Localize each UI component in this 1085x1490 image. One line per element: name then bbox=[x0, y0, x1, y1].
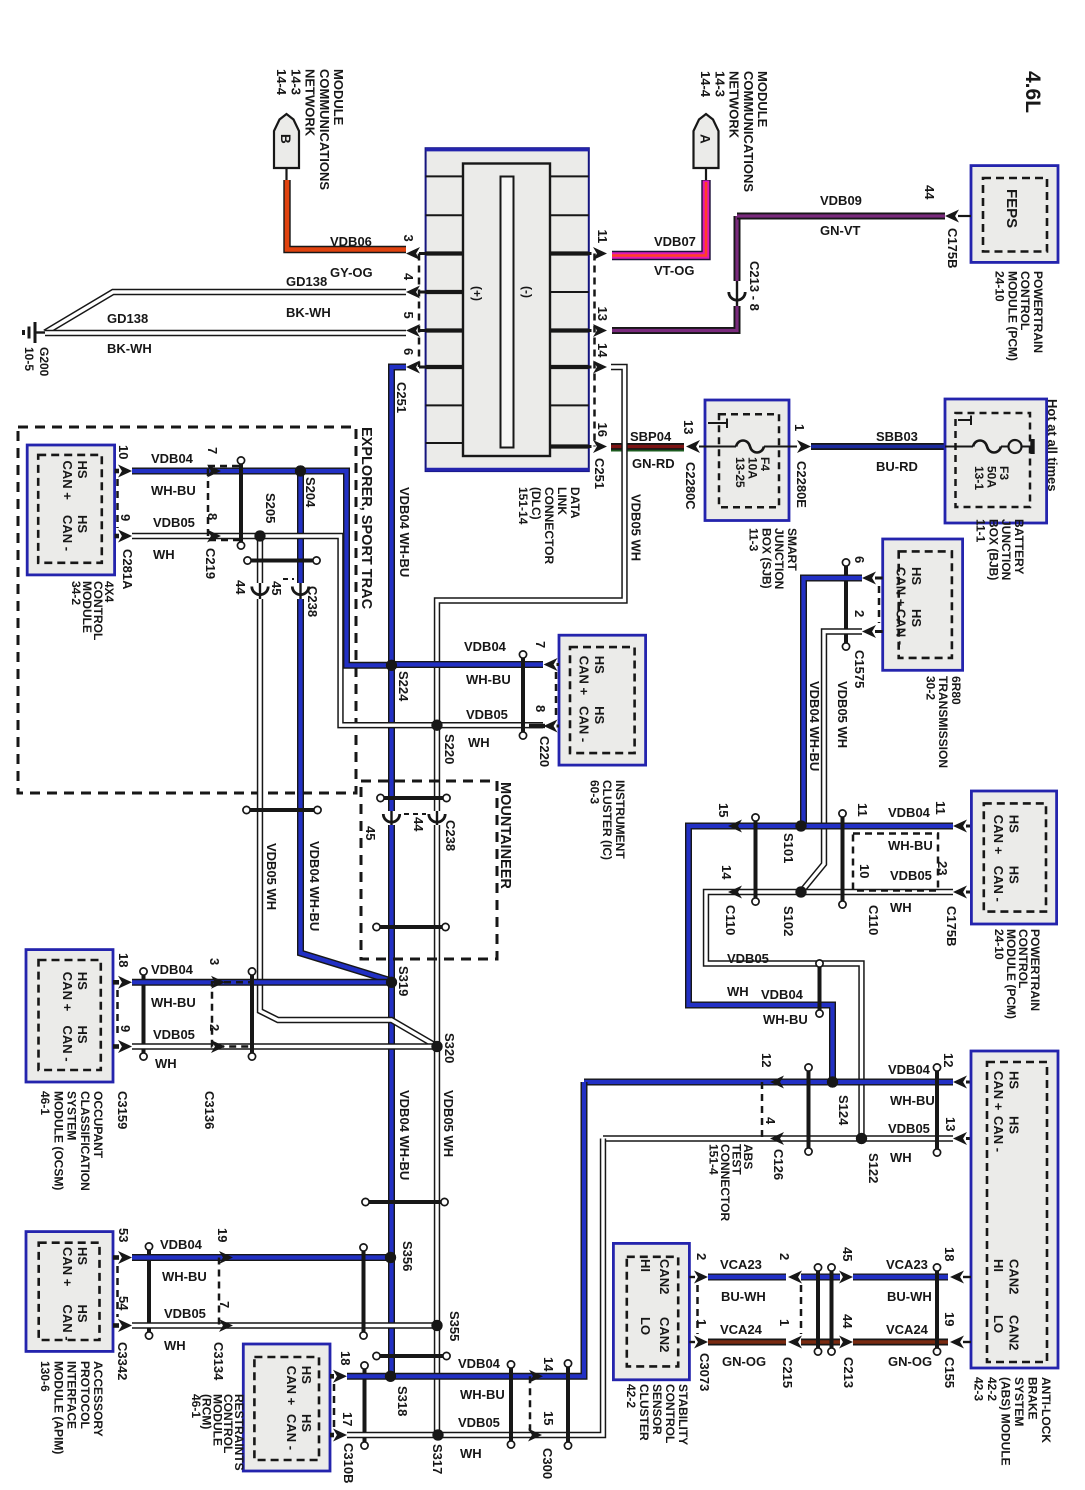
svg-text:17: 17 bbox=[340, 1412, 355, 1426]
connector C300 pins 14/15 bbox=[509, 1368, 513, 1441]
svg-text:VDB09: VDB09 bbox=[820, 193, 862, 208]
svg-text:44: 44 bbox=[411, 817, 426, 832]
wire branch S204 down (explorer bus) bbox=[297, 471, 304, 583]
svg-text:B: B bbox=[278, 134, 293, 144]
wire: GD138 BK-WH lower (DLC pin 5 to G200) bbox=[45, 330, 406, 336]
svg-text:EXPLORER, SPORT TRAC: EXPLORER, SPORT TRAC bbox=[358, 427, 374, 610]
splice S102 bbox=[795, 886, 806, 897]
svg-text:2: 2 bbox=[694, 1253, 709, 1260]
svg-text:SBP04: SBP04 bbox=[630, 429, 672, 444]
svg-text:14: 14 bbox=[719, 865, 734, 880]
PCM powertrain control module box bbox=[971, 791, 1056, 924]
wire VDB04 (RCM pin 18 to S318) bbox=[347, 1373, 391, 1380]
connector C110/C175B (pins 11/10 - 11/23) bbox=[841, 817, 845, 901]
svg-text:WH-BU: WH-BU bbox=[460, 1387, 505, 1402]
svg-text:VCA23: VCA23 bbox=[886, 1257, 928, 1272]
svg-text:BU-WH: BU-WH bbox=[887, 1289, 932, 1304]
svg-text:VDB04: VDB04 bbox=[761, 987, 804, 1002]
wire VDB04 (APIM pin 53 to S356) bbox=[132, 1254, 391, 1261]
svg-text:VDB04: VDB04 bbox=[888, 805, 931, 820]
svg-text:WH: WH bbox=[890, 1150, 912, 1165]
svg-text:WH: WH bbox=[164, 1338, 186, 1353]
wire VCA23 BU-WH (stability to C215) bbox=[708, 1274, 786, 1281]
svg-text:VDB04 WH-BU: VDB04 WH-BU bbox=[807, 681, 822, 771]
stability control sensor cluster box bbox=[613, 1243, 689, 1379]
svg-text:GN-OG: GN-OG bbox=[722, 1354, 766, 1369]
svg-text:MOUNTAINEER: MOUNTAINEER bbox=[497, 782, 513, 889]
svg-text:12: 12 bbox=[759, 1053, 774, 1067]
svg-text:WH-BU: WH-BU bbox=[890, 1093, 935, 1108]
DLC pin arrows and numbers bbox=[406, 247, 420, 260]
svg-text:S318: S318 bbox=[395, 1386, 410, 1416]
wire VCA24 GN-OG (C213 to ABS pin 19) bbox=[853, 1339, 948, 1346]
svg-text:VDB06: VDB06 bbox=[330, 234, 372, 249]
4X4 pin 10 / C281A bbox=[115, 469, 119, 474]
svg-text:VDB05: VDB05 bbox=[458, 1415, 500, 1430]
wire VDB05 WH (PCM pin 23 run) bbox=[706, 892, 953, 1139]
svg-text:C281A: C281A bbox=[120, 549, 135, 590]
svg-text:18: 18 bbox=[338, 1351, 353, 1365]
svg-text:S205: S205 bbox=[263, 493, 278, 523]
connector C213 pins 45/44 bbox=[839, 1271, 853, 1284]
wire VDB09 GN-VT (junction to FEPS pin 44) bbox=[734, 216, 741, 281]
SJB smart junction box bbox=[705, 400, 789, 521]
wire VDB07 VT-OG (A to DLC pin 11) bbox=[612, 180, 706, 256]
connector C238 (explorer) 44/45 bbox=[251, 559, 313, 563]
svg-text:GD138: GD138 bbox=[107, 311, 148, 326]
svg-text:C310B: C310B bbox=[341, 1443, 356, 1483]
6R80 transmission box bbox=[883, 539, 963, 670]
svg-text:WH-BU: WH-BU bbox=[151, 995, 196, 1010]
svg-text:BU-RD: BU-RD bbox=[876, 459, 918, 474]
svg-text:C1575: C1575 bbox=[852, 650, 867, 688]
4X4 pin 9 bbox=[115, 534, 119, 539]
svg-text:C220: C220 bbox=[537, 736, 552, 767]
svg-text:14: 14 bbox=[541, 1357, 556, 1372]
svg-text:S355: S355 bbox=[447, 1311, 462, 1341]
EXPLORER, SPORT TRAC dashed box bbox=[18, 427, 356, 793]
svg-text:S102: S102 bbox=[781, 906, 796, 936]
svg-text:GN-VT: GN-VT bbox=[820, 223, 861, 238]
wire VDB05 (S122 horizontal run) bbox=[603, 1135, 953, 1141]
svg-text:WH: WH bbox=[727, 984, 749, 999]
svg-text:S356: S356 bbox=[400, 1241, 415, 1271]
svg-text:44: 44 bbox=[922, 185, 937, 200]
svg-text:VDB04: VDB04 bbox=[888, 1062, 931, 1077]
wire branch S205 to S220 bbox=[260, 536, 437, 725]
splice S204 bbox=[295, 465, 306, 476]
svg-text:45: 45 bbox=[363, 826, 378, 840]
ABS anti-lock brake system module box bbox=[971, 1051, 1058, 1368]
Mountaineer C238 connector symbols bbox=[384, 796, 443, 800]
svg-text:VCA23: VCA23 bbox=[720, 1257, 762, 1272]
wire branch S205 down bbox=[257, 536, 263, 583]
svg-text:C215: C215 bbox=[780, 1357, 795, 1388]
wire VDB05 WH (4X4 to S205) bbox=[132, 533, 260, 539]
svg-text:C110: C110 bbox=[723, 905, 738, 935]
svg-text:3: 3 bbox=[401, 235, 416, 242]
svg-text:C126: C126 bbox=[771, 1149, 786, 1180]
svg-text:WH: WH bbox=[155, 1056, 177, 1071]
svg-text:13: 13 bbox=[595, 307, 610, 321]
svg-text:(-): (-) bbox=[520, 286, 534, 298]
svg-text:WH: WH bbox=[153, 547, 175, 562]
svg-text:WH-BU: WH-BU bbox=[151, 483, 196, 498]
svg-text:WH-BU: WH-BU bbox=[888, 838, 933, 853]
connector A (module communications network) bbox=[694, 114, 719, 168]
svg-text:23: 23 bbox=[935, 861, 950, 875]
splice S318 bbox=[385, 1371, 396, 1382]
svg-text:C251: C251 bbox=[394, 382, 409, 413]
wire VDB04 WH-BU (4X4 to S204) bbox=[132, 468, 301, 475]
splice S355 bbox=[431, 1320, 442, 1331]
wire VDB04 (S224 to IC pin 7) bbox=[392, 661, 544, 668]
connector C219 pins 7/8 bbox=[207, 465, 221, 478]
wire: GD138 BK-WH upper (DLC pin 4 to G200) bbox=[45, 292, 406, 333]
svg-text:9: 9 bbox=[118, 514, 133, 521]
capsule before ABS pins 18/19 bbox=[935, 1271, 939, 1348]
BJB battery junction box bbox=[945, 399, 1047, 523]
svg-text:A: A bbox=[698, 134, 713, 144]
wire VCA23 BU-WH (C213 to ABS pin 18) bbox=[853, 1274, 948, 1281]
wire VDB04 WH-BU (PCM pin 11 run) bbox=[689, 826, 954, 1082]
svg-text:1: 1 bbox=[777, 1319, 792, 1326]
svg-text:BK-WH: BK-WH bbox=[286, 305, 331, 320]
wire VDB05 (S220 to IC pin 8) bbox=[437, 722, 543, 728]
wire VDB05 WH main white path (DLC pin 14 to S317) bbox=[437, 367, 625, 811]
splice S320 bbox=[431, 1041, 442, 1052]
svg-text:7: 7 bbox=[205, 447, 220, 454]
svg-text:C213: C213 bbox=[841, 1357, 856, 1388]
fuse F3 bbox=[973, 441, 1001, 453]
fuse F4 bbox=[736, 441, 764, 453]
svg-text:BK-WH: BK-WH bbox=[107, 341, 152, 356]
svg-text:VDB05: VDB05 bbox=[466, 707, 508, 722]
svg-text:WH-BU: WH-BU bbox=[466, 672, 511, 687]
inline connector capsule on buses at 1202 bbox=[369, 1200, 441, 1204]
svg-text:19: 19 bbox=[215, 1228, 230, 1242]
svg-text:C219: C219 bbox=[203, 548, 218, 579]
svg-text:18: 18 bbox=[942, 1247, 957, 1261]
splice S122 bbox=[856, 1133, 867, 1144]
svg-text:VDB05 WH: VDB05 WH bbox=[629, 494, 644, 561]
svg-text:WH-BU: WH-BU bbox=[763, 1012, 808, 1027]
svg-text:8: 8 bbox=[533, 705, 548, 712]
svg-text:C300: C300 bbox=[540, 1448, 555, 1479]
svg-text:C238: C238 bbox=[305, 586, 320, 617]
svg-text:VDB05: VDB05 bbox=[164, 1306, 206, 1321]
ground G200 bbox=[36, 331, 45, 333]
svg-text:44: 44 bbox=[233, 580, 248, 595]
svg-text:C155: C155 bbox=[942, 1357, 957, 1388]
svg-text:G200: G200 bbox=[37, 347, 51, 377]
svg-text:S317: S317 bbox=[430, 1444, 445, 1474]
wire VDB04 (OCSM pin 18 to S319) bbox=[132, 979, 391, 986]
splice S224 bbox=[386, 660, 397, 671]
APIM accessory protocol interface module box bbox=[26, 1232, 113, 1352]
svg-text:6: 6 bbox=[401, 348, 416, 355]
connector B (module communications network) bbox=[274, 114, 299, 168]
connector C215 pins 2/1 bbox=[788, 1271, 802, 1284]
svg-text:C251: C251 bbox=[592, 458, 607, 489]
svg-text:VDB04: VDB04 bbox=[464, 639, 507, 654]
svg-text:4: 4 bbox=[763, 1117, 778, 1125]
svg-text:S122: S122 bbox=[866, 1153, 881, 1183]
wire SBB03 BU-RD (SJB to BJB) bbox=[811, 443, 945, 450]
svg-text:10: 10 bbox=[857, 864, 872, 878]
svg-text:C3134: C3134 bbox=[211, 1342, 226, 1381]
svg-text:VDB04 WH-BU: VDB04 WH-BU bbox=[307, 841, 322, 931]
svg-text:C213 - 8: C213 - 8 bbox=[747, 261, 762, 311]
svg-text:3: 3 bbox=[207, 958, 222, 965]
svg-text:4.6L: 4.6L bbox=[1021, 71, 1044, 113]
DLC data link connector box bbox=[426, 148, 589, 471]
svg-text:FEPS: FEPS bbox=[1003, 189, 1020, 228]
svg-text:GN-OG: GN-OG bbox=[888, 1354, 932, 1369]
splice S356 bbox=[385, 1252, 396, 1263]
splice S317 bbox=[432, 1429, 443, 1440]
svg-text:19: 19 bbox=[942, 1312, 957, 1326]
svg-text:VDB05: VDB05 bbox=[888, 1121, 930, 1136]
svg-text:6: 6 bbox=[852, 556, 867, 563]
svg-text:VDB05: VDB05 bbox=[727, 951, 769, 966]
svg-text:VDB04: VDB04 bbox=[151, 451, 194, 466]
RCM restraints control module box bbox=[243, 1344, 330, 1471]
connector C213 pin 8 (hook) bbox=[736, 281, 738, 306]
svg-text:C3136: C3136 bbox=[202, 1091, 217, 1129]
svg-text:VCA24: VCA24 bbox=[720, 1322, 763, 1337]
splice S101 bbox=[795, 820, 806, 831]
svg-text:VDB07: VDB07 bbox=[654, 234, 696, 249]
svg-text:2: 2 bbox=[852, 610, 867, 617]
svg-text:11: 11 bbox=[855, 803, 870, 817]
svg-text:GN-RD: GN-RD bbox=[632, 456, 675, 471]
svg-text:13: 13 bbox=[681, 420, 696, 434]
svg-text:GD138: GD138 bbox=[286, 274, 327, 289]
svg-text:45: 45 bbox=[269, 581, 284, 595]
svg-text:15: 15 bbox=[541, 1411, 556, 1425]
splice S205 bbox=[254, 530, 265, 541]
wire VDB04 (S124 horizontal run) bbox=[584, 1079, 953, 1086]
splice dots redrawn on top bbox=[295, 465, 306, 476]
capsule on buses above S318 bbox=[380, 1354, 443, 1358]
svg-text:C3342: C3342 bbox=[115, 1342, 130, 1380]
svg-text:VDB05 WH: VDB05 WH bbox=[441, 1090, 456, 1157]
svg-text:10-5: 10-5 bbox=[22, 347, 36, 371]
svg-text:7: 7 bbox=[533, 641, 548, 648]
svg-text:14: 14 bbox=[595, 343, 610, 358]
wire branch S204 to S224 bbox=[301, 471, 392, 665]
svg-text:Hot at all times: Hot at all times bbox=[1045, 399, 1060, 491]
svg-text:VDB05: VDB05 bbox=[153, 515, 195, 530]
svg-text:12: 12 bbox=[941, 1053, 956, 1067]
wire VDB04 (S318 to S124 riser) bbox=[391, 1082, 585, 1376]
svg-text:VDB04: VDB04 bbox=[458, 1356, 501, 1371]
svg-text:16: 16 bbox=[595, 423, 610, 437]
svg-text:S101: S101 bbox=[781, 833, 796, 863]
svg-text:S220: S220 bbox=[442, 734, 457, 764]
svg-text:9: 9 bbox=[118, 1025, 133, 1032]
splice S319 bbox=[386, 977, 397, 988]
svg-text:BU-WH: BU-WH bbox=[721, 1289, 766, 1304]
svg-text:53: 53 bbox=[116, 1228, 131, 1242]
wire VDB05 (OCSM pin 9 to S320) bbox=[132, 1043, 437, 1049]
svg-text:C175B: C175B bbox=[944, 906, 959, 946]
FEPS box bbox=[971, 166, 1058, 263]
4X4 control module box bbox=[27, 445, 114, 575]
svg-text:(+): (+) bbox=[470, 286, 484, 301]
svg-text:WH: WH bbox=[460, 1446, 482, 1461]
svg-text:15: 15 bbox=[716, 803, 731, 817]
connector C3136 pins 3/2 bbox=[211, 976, 225, 989]
wire VDB05 (6R80 pin 2 to S102) bbox=[801, 632, 862, 893]
svg-text:18: 18 bbox=[116, 953, 131, 967]
wire VDB04 WH-BU main bus (DLC pin 6 down to S318) bbox=[392, 367, 407, 811]
svg-text:S224: S224 bbox=[396, 671, 411, 702]
splice S124 bbox=[827, 1076, 838, 1087]
svg-text:5: 5 bbox=[401, 312, 416, 319]
svg-text:1: 1 bbox=[792, 424, 807, 431]
svg-text:C3159: C3159 bbox=[115, 1091, 130, 1129]
svg-text:VDB04: VDB04 bbox=[151, 962, 194, 977]
svg-text:VDB05: VDB05 bbox=[890, 868, 932, 883]
wire VDB05 (S317 to S122 riser) bbox=[438, 1139, 603, 1436]
svg-text:C175B: C175B bbox=[945, 228, 960, 268]
capsule before ABS pins 12/13 bbox=[935, 1071, 939, 1149]
svg-text:11: 11 bbox=[933, 801, 948, 815]
connector C110 (left pins 15/14) bbox=[728, 820, 742, 833]
svg-text:C110: C110 bbox=[866, 905, 881, 935]
wire VCA24 GN-OG (stability to C215) bbox=[708, 1339, 786, 1346]
svg-text:C3073: C3073 bbox=[697, 1353, 712, 1391]
wire VDB05 (APIM pin 54 to S355) bbox=[132, 1322, 437, 1328]
svg-text:VDB05 WH: VDB05 WH bbox=[835, 681, 850, 748]
svg-text:VDB04: VDB04 bbox=[160, 1237, 203, 1252]
svg-text:GY-OG: GY-OG bbox=[330, 265, 373, 280]
svg-text:S124: S124 bbox=[836, 1095, 851, 1126]
instrument cluster box bbox=[559, 635, 646, 765]
svg-text:VDB04 WH-BU: VDB04 WH-BU bbox=[397, 1090, 412, 1180]
svg-text:C2280E: C2280E bbox=[794, 461, 809, 508]
svg-text:WH: WH bbox=[468, 735, 490, 750]
svg-text:WH: WH bbox=[890, 900, 912, 915]
connector C126 pins 12/4 bbox=[770, 1076, 784, 1089]
svg-text:S319: S319 bbox=[396, 966, 411, 996]
svg-text:SBB03: SBB03 bbox=[876, 429, 918, 444]
connector C3134 pins 19/7 bbox=[219, 1251, 233, 1264]
wire VDB05 (RCM pin 17 to S317) bbox=[347, 1432, 438, 1438]
OCSM occupant classification box bbox=[26, 950, 113, 1082]
svg-text:44: 44 bbox=[840, 1314, 855, 1329]
splice S220 bbox=[431, 720, 442, 731]
svg-text:S320: S320 bbox=[442, 1033, 457, 1063]
svg-text:VDB05 WH: VDB05 WH bbox=[264, 843, 279, 910]
MOUNTAINEER dashed box bbox=[361, 781, 497, 959]
svg-text:S204: S204 bbox=[303, 477, 318, 508]
svg-text:C238: C238 bbox=[443, 820, 458, 851]
svg-text:VDB05: VDB05 bbox=[153, 1027, 195, 1042]
svg-text:VDB04 WH-BU: VDB04 WH-BU bbox=[397, 487, 412, 577]
svg-text:2: 2 bbox=[207, 1024, 222, 1031]
svg-text:11: 11 bbox=[595, 230, 610, 244]
svg-text:4: 4 bbox=[401, 273, 416, 281]
svg-text:WH-BU: WH-BU bbox=[162, 1269, 207, 1284]
capsule on white vertical near S124 bbox=[818, 967, 822, 1010]
svg-text:2: 2 bbox=[777, 1253, 792, 1260]
wire VDB04 (6R80 pin 6 to S101) bbox=[804, 578, 863, 826]
svg-text:10: 10 bbox=[116, 445, 131, 459]
svg-text:VCA24: VCA24 bbox=[886, 1322, 929, 1337]
svg-text:VT-OG: VT-OG bbox=[654, 263, 694, 278]
jumper wires between C215 and C213 bbox=[801, 1274, 840, 1281]
wire SBP04 GN-RD (DLC pin 16 to SJB) bbox=[611, 443, 684, 450]
svg-text:13: 13 bbox=[943, 1117, 958, 1131]
wire VDB06 GY-OG (B to DLC pin 3) bbox=[287, 180, 406, 250]
inline connector capsule on explorer pair at 810 bbox=[250, 808, 314, 812]
svg-text:45: 45 bbox=[840, 1247, 855, 1261]
svg-text:C2280C: C2280C bbox=[683, 462, 698, 510]
